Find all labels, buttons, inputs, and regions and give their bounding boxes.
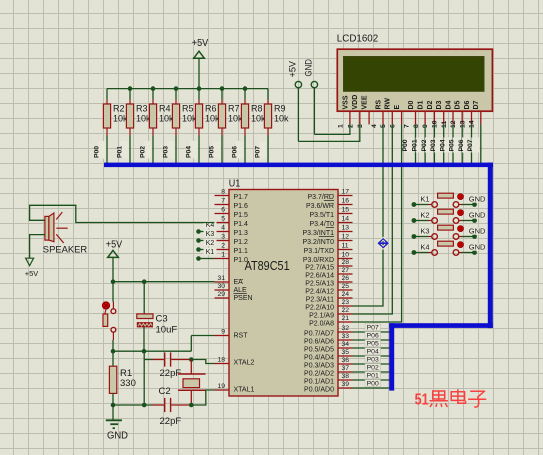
svg-text:32: 32 (342, 325, 350, 332)
svg-text:10k: 10k (228, 114, 243, 124)
svg-text:8: 8 (413, 124, 420, 128)
svg-text:GND: GND (469, 243, 486, 252)
svg-text:P02: P02 (421, 139, 428, 151)
svg-text:18: 18 (217, 357, 225, 364)
svg-text:7: 7 (403, 124, 410, 128)
svg-text:P03: P03 (430, 139, 437, 151)
svg-text:R2: R2 (113, 104, 125, 114)
svg-text:D5: D5 (455, 100, 462, 109)
svg-text:P05: P05 (367, 340, 379, 347)
svg-text:P0.1/AD1: P0.1/AD1 (304, 379, 334, 386)
svg-text:GND: GND (107, 430, 128, 441)
svg-text:51: 51 (415, 392, 429, 409)
svg-text:VEE: VEE (362, 95, 369, 109)
svg-text:1: 1 (221, 252, 225, 259)
svg-text:D2: D2 (427, 100, 434, 109)
svg-text:D6: D6 (464, 100, 471, 109)
svg-text:K3: K3 (206, 231, 215, 238)
svg-text:P0.6/AD6: P0.6/AD6 (304, 339, 334, 346)
svg-text:17: 17 (342, 189, 350, 196)
svg-text:U1: U1 (229, 178, 241, 190)
svg-text:D1: D1 (418, 100, 425, 109)
svg-text:K1: K1 (206, 249, 215, 256)
svg-text:30: 30 (217, 283, 225, 290)
svg-text:P3.2/INT0: P3.2/INT0 (302, 239, 334, 246)
svg-text:P1.0: P1.0 (234, 257, 249, 264)
svg-text:VDD: VDD (352, 95, 359, 110)
svg-text:P03: P03 (367, 356, 379, 363)
svg-text:GND: GND (469, 211, 486, 220)
svg-text:P05: P05 (208, 146, 215, 158)
svg-text:PSEN: PSEN (234, 295, 253, 302)
svg-text:12: 12 (342, 234, 350, 241)
svg-text:13: 13 (342, 225, 350, 232)
svg-text:D3: D3 (436, 100, 443, 109)
svg-text:P07: P07 (367, 324, 379, 331)
svg-text:P06: P06 (231, 146, 238, 158)
svg-text:P2.7/A15: P2.7/A15 (305, 265, 334, 272)
svg-text:24: 24 (342, 291, 350, 298)
svg-text:SPEAKER: SPEAKER (43, 244, 88, 255)
svg-text:K4: K4 (420, 243, 429, 252)
svg-text:C2: C2 (159, 386, 171, 397)
svg-text:D0: D0 (408, 100, 415, 109)
svg-text:10: 10 (342, 252, 350, 259)
svg-text:P0.3/AD3: P0.3/AD3 (304, 363, 334, 370)
svg-text:R6: R6 (205, 104, 217, 114)
svg-text:P1.6: P1.6 (234, 203, 249, 210)
svg-text:P04: P04 (367, 348, 379, 355)
svg-text:P3.1/TXD: P3.1/TXD (304, 248, 334, 255)
svg-text:7: 7 (221, 198, 225, 205)
svg-text:21: 21 (342, 315, 350, 322)
svg-text:P0.5/AD5: P0.5/AD5 (304, 347, 334, 354)
svg-text:R3: R3 (136, 104, 148, 114)
svg-text:2: 2 (221, 243, 225, 250)
svg-text:P06: P06 (458, 139, 465, 151)
svg-text:P03: P03 (162, 146, 169, 158)
svg-text:P0.7/AD7: P0.7/AD7 (304, 331, 334, 338)
svg-text:10k: 10k (205, 114, 220, 124)
svg-text:P3.4/T0: P3.4/T0 (309, 221, 334, 228)
svg-text:33: 33 (342, 333, 350, 340)
svg-text:R5: R5 (182, 104, 194, 114)
svg-text:GND: GND (303, 59, 313, 77)
svg-text:R8: R8 (251, 104, 263, 114)
svg-text:+5V: +5V (192, 38, 209, 49)
svg-text:P02: P02 (139, 146, 146, 158)
svg-text:P3.3/INT1: P3.3/INT1 (302, 230, 334, 237)
svg-text:26: 26 (342, 275, 350, 282)
svg-text:+5V: +5V (287, 61, 297, 78)
svg-text:R9: R9 (274, 104, 286, 114)
svg-text:P07: P07 (467, 139, 474, 151)
svg-text:22pF: 22pF (160, 416, 182, 427)
svg-text:P1.4: P1.4 (234, 221, 249, 228)
svg-text:P2.4/A12: P2.4/A12 (305, 289, 334, 296)
svg-text:LCD1602: LCD1602 (337, 32, 379, 44)
svg-text:22: 22 (342, 307, 350, 314)
svg-text:1: 1 (338, 124, 345, 128)
svg-text:5: 5 (221, 216, 225, 223)
svg-text:9: 9 (221, 329, 225, 336)
svg-text:P2.6/A14: P2.6/A14 (305, 273, 334, 280)
svg-text:P2.3/A11: P2.3/A11 (306, 297, 334, 304)
svg-text:P01: P01 (412, 139, 419, 151)
svg-text:D4: D4 (445, 100, 452, 109)
svg-text:XTAL2: XTAL2 (234, 359, 255, 366)
svg-text:P2.1/A9: P2.1/A9 (309, 313, 334, 320)
svg-text:10k: 10k (159, 114, 174, 124)
svg-text:P00: P00 (402, 139, 409, 151)
svg-text:P2.2/A10: P2.2/A10 (305, 305, 334, 312)
svg-text:P01: P01 (367, 372, 379, 379)
svg-text:P3.5/T1: P3.5/T1 (309, 212, 334, 219)
svg-text:19: 19 (217, 383, 225, 390)
svg-text:D7: D7 (473, 100, 480, 109)
svg-text:P06: P06 (367, 332, 379, 339)
svg-text:P1.3: P1.3 (234, 230, 249, 237)
svg-text:P2.5/A13: P2.5/A13 (305, 281, 334, 288)
svg-text:K2: K2 (206, 240, 215, 247)
svg-text:E: E (394, 105, 401, 110)
svg-text:P3.0/RXD: P3.0/RXD (303, 257, 334, 264)
svg-text:P00: P00 (93, 146, 100, 158)
svg-text:RST: RST (234, 333, 249, 340)
svg-text:10k: 10k (136, 114, 151, 124)
svg-text:P01: P01 (116, 146, 123, 158)
svg-text:+5V: +5V (106, 240, 123, 251)
svg-text:6: 6 (221, 207, 225, 214)
svg-text:25: 25 (342, 283, 350, 290)
svg-text:38: 38 (342, 373, 350, 380)
svg-text:2: 2 (348, 124, 355, 128)
svg-text:P1.5: P1.5 (234, 212, 249, 219)
svg-text:R7: R7 (228, 104, 240, 114)
svg-text:P0.4/AD4: P0.4/AD4 (304, 355, 334, 362)
svg-text:10k: 10k (182, 114, 197, 124)
svg-text:C3: C3 (156, 314, 168, 325)
svg-text:P1.2: P1.2 (234, 239, 249, 246)
svg-text:3: 3 (221, 234, 225, 241)
svg-text:GND: GND (469, 227, 486, 236)
svg-text:P3.6/WR: P3.6/WR (306, 203, 334, 210)
svg-text:11: 11 (342, 243, 349, 250)
svg-text:P3.7/RD: P3.7/RD (308, 194, 334, 201)
svg-text:8: 8 (221, 189, 225, 196)
svg-text:10k: 10k (274, 114, 289, 124)
svg-text:34: 34 (342, 341, 350, 348)
svg-text:K1: K1 (420, 195, 429, 204)
svg-text:10k: 10k (251, 114, 266, 124)
svg-text:35: 35 (342, 349, 350, 356)
svg-text:K2: K2 (420, 211, 429, 220)
svg-text:16: 16 (342, 198, 350, 205)
svg-text:P1.1: P1.1 (234, 248, 249, 255)
svg-text:P00: P00 (367, 380, 379, 387)
svg-text:P04: P04 (185, 146, 192, 158)
svg-text:10k: 10k (113, 114, 128, 124)
svg-text:EA: EA (234, 279, 244, 286)
svg-text:28: 28 (342, 259, 350, 266)
svg-text:4: 4 (371, 124, 378, 128)
svg-text:VSS: VSS (342, 95, 349, 109)
svg-text:15: 15 (342, 207, 350, 214)
svg-text:P04: P04 (439, 139, 446, 151)
svg-text:23: 23 (342, 299, 350, 306)
svg-text:27: 27 (342, 267, 350, 274)
svg-text:10uF: 10uF (156, 325, 178, 336)
svg-text:AT89C51: AT89C51 (245, 258, 290, 273)
svg-text:K3: K3 (420, 227, 429, 236)
svg-text:R4: R4 (159, 104, 171, 114)
svg-text:P02: P02 (367, 364, 379, 371)
svg-text:4: 4 (221, 225, 225, 232)
svg-text:P2.0/A8: P2.0/A8 (309, 321, 334, 328)
svg-text:37: 37 (342, 365, 350, 372)
svg-text:31: 31 (217, 275, 225, 282)
svg-text:GND: GND (469, 195, 486, 204)
svg-text:P0.2/AD2: P0.2/AD2 (304, 371, 334, 378)
svg-text:P1.7: P1.7 (234, 194, 249, 201)
svg-text:RS: RS (375, 99, 382, 109)
svg-text:29: 29 (217, 291, 225, 298)
svg-text:P0.0/AD0: P0.0/AD0 (304, 387, 334, 394)
svg-text:36: 36 (342, 357, 350, 364)
svg-text:P07: P07 (254, 146, 261, 158)
svg-text:P05: P05 (449, 139, 456, 151)
svg-text:+5V: +5V (25, 269, 39, 278)
svg-text:ALE: ALE (234, 287, 248, 294)
svg-text:RW: RW (385, 98, 392, 110)
svg-text:330: 330 (120, 378, 136, 389)
svg-text:14: 14 (342, 216, 350, 223)
svg-text:39: 39 (342, 381, 350, 388)
svg-text:XTAL1: XTAL1 (234, 387, 255, 394)
